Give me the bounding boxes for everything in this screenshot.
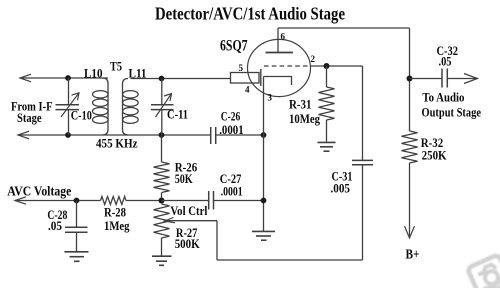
svg-text:To Audio: To Audio: [422, 90, 464, 105]
svg-text:6: 6: [281, 32, 286, 42]
svg-text:AVC Voltage: AVC Voltage: [7, 183, 71, 198]
svg-text:5: 5: [239, 63, 244, 73]
svg-text:C-10: C-10: [71, 108, 92, 123]
capacitor C-32: [410, 69, 478, 88]
inductor L10 (T5 primary): [93, 78, 109, 135]
wire: AVC line: [15, 200, 101, 202]
node: L10 bottom junction: [65, 132, 71, 138]
resistor R-32: [402, 131, 418, 163]
arrow: From I-F bottom (points left): [18, 131, 29, 139]
diode cathode bar: [260, 69, 262, 86]
svg-text:B+: B+: [406, 248, 420, 263]
svg-text:.05: .05: [439, 53, 452, 68]
wire: volume control wiper arm: [165, 218, 363, 261]
capacitor C-28: [65, 201, 88, 252]
svg-text:Detector/AVC/1st Audio Stage: Detector/AVC/1st Audio Stage: [155, 4, 345, 24]
svg-text:Stage: Stage: [17, 110, 42, 125]
label: R-32 250K: [421, 135, 448, 162]
cathode of triode (pin 3): [264, 77, 292, 86]
wire: L11 top to diode plates: [131, 78, 231, 80]
svg-text:455 KHz: 455 KHz: [96, 136, 138, 151]
wire: R-32 down to B+: [409, 163, 411, 238]
label: C-27 .0001: [220, 171, 243, 198]
capacitor C-27: [162, 191, 264, 210]
label: C-28 .05: [47, 207, 67, 233]
arrow: From I-F top (points left): [20, 74, 31, 82]
ground (C-28): [65, 252, 89, 261]
svg-text:4: 4: [245, 85, 250, 95]
wire: cathode line down to ground: [263, 77, 265, 232]
capacitor C-10 (variable): [56, 78, 80, 135]
node: C-11 top junction: [159, 76, 165, 82]
resistor R-27 (volume control): [154, 204, 170, 256]
label: R-31 10Meg: [289, 97, 320, 126]
wire: B+ rail down: [409, 28, 411, 131]
wire: plate pin 6 lead: [277, 28, 279, 53]
label: R-27 500K: [175, 225, 201, 251]
svg-text:3: 3: [268, 92, 273, 102]
grid (dashed): [264, 65, 310, 67]
label: From I-F Stage: [11, 99, 53, 125]
arrow: B+ (points down): [405, 226, 415, 238]
svg-text:2: 2: [311, 54, 316, 64]
svg-text:.0001: .0001: [221, 183, 243, 198]
svg-text:Vol Ctrl: Vol Ctrl: [170, 203, 207, 218]
inductor L11 (T5 secondary): [123, 79, 139, 136]
svg-text:50K: 50K: [175, 171, 194, 186]
label: To Audio Output Stage: [422, 90, 482, 120]
capacitor C-26: [211, 127, 264, 144]
plate bar of triode: [266, 52, 294, 54]
resistor R-26: [154, 135, 170, 201]
arrow: to audio output (points right): [464, 74, 478, 84]
label: C-31 .005: [331, 168, 353, 195]
label: C-26 .0001: [219, 109, 244, 138]
svg-text:1Meg: 1Meg: [104, 218, 130, 233]
svg-text:C-11: C-11: [167, 107, 188, 122]
capacitor C-31: [352, 160, 373, 260]
label: R-26 50K: [175, 159, 198, 186]
node: volume control junction: [159, 198, 165, 204]
resistor R-28: [101, 197, 127, 205]
ground (R-31): [318, 142, 336, 151]
resistor R-31: [319, 66, 335, 142]
node: AVC / C-28 junction: [74, 198, 80, 204]
svg-text:R-31: R-31: [289, 97, 312, 112]
wire: top-left I-F input line: [20, 77, 108, 79]
svg-text:.05: .05: [48, 218, 62, 233]
node: C-26 right junction on cathode line: [261, 132, 267, 138]
svg-text:Output Stage: Output Stage: [422, 104, 482, 119]
ground (cathode): [252, 231, 275, 240]
capacitor C-11 (variable): [151, 79, 174, 136]
svg-text:L10: L10: [84, 67, 103, 81]
watermark: camera icon (bottom right): [467, 254, 500, 288]
label: R-28 1Meg: [104, 205, 130, 233]
svg-text:.005: .005: [331, 181, 351, 196]
node: pin 2 junction: [324, 63, 330, 69]
node: C-27 right junction on cathode line: [261, 198, 267, 204]
svg-text:250K: 250K: [422, 148, 448, 163]
svg-text:.0001: .0001: [219, 122, 244, 137]
wire: pin 2 to C-31 column: [311, 65, 363, 67]
svg-text:6SQ7: 6SQ7: [220, 38, 248, 55]
tube 6SQ7 envelope U1: [248, 39, 311, 96]
wire: C-31 column from pin2 row down to plate: [362, 66, 364, 160]
wire: top plate supply line: [278, 27, 410, 29]
node: C-11 bottom junction: [159, 132, 165, 138]
label: C-32 .05: [437, 43, 459, 69]
wire: bottom-left I-F return line: [18, 134, 211, 136]
ground (R-27): [152, 256, 172, 265]
arrow: AVC voltage (points left): [15, 197, 26, 204]
wire: R-28 to volume control: [126, 200, 162, 202]
svg-text:500K: 500K: [175, 236, 201, 251]
svg-text:10Meg: 10Meg: [289, 111, 320, 126]
svg-text:T5: T5: [110, 59, 122, 73]
diode plates box (pins 4,5): [231, 73, 260, 84]
node: B+ rail / C-32 junction: [407, 76, 413, 82]
node: L10 top junction: [65, 75, 71, 81]
